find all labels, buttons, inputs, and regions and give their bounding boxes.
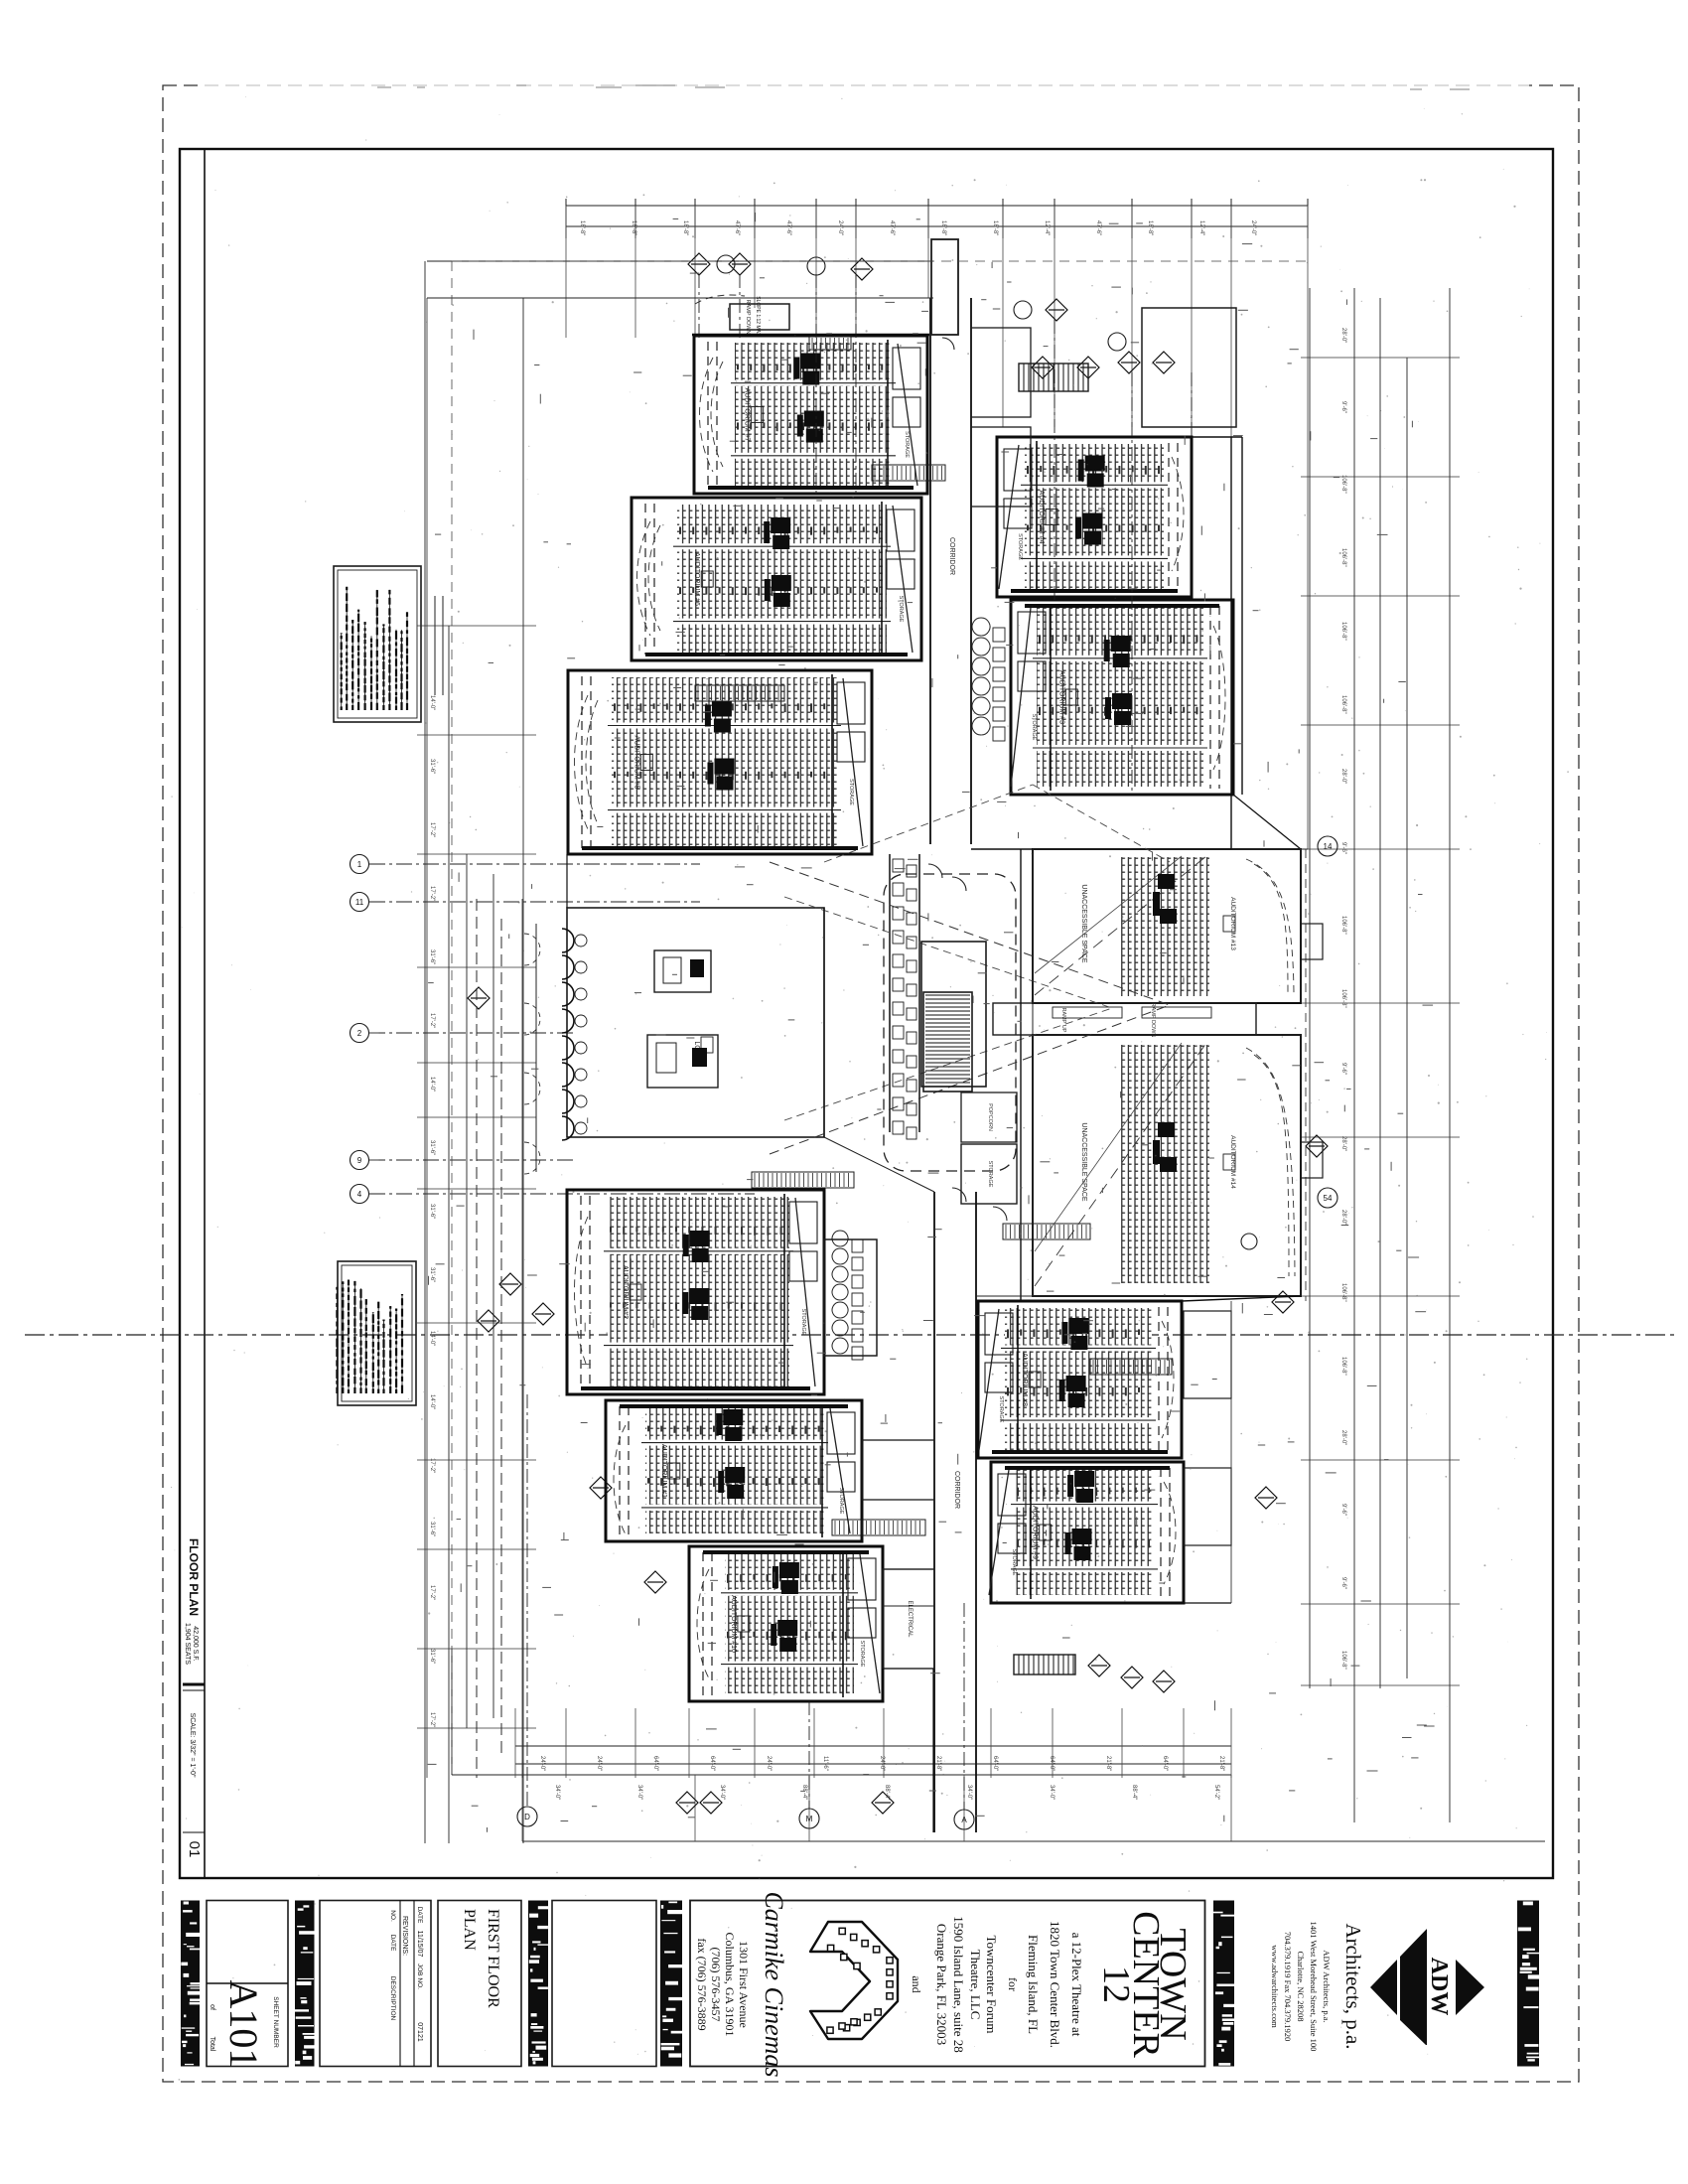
title block texture strip 6 bbox=[1517, 1901, 1539, 2067]
svg-text:ADW Architects, p.a.: ADW Architects, p.a. bbox=[1322, 1950, 1332, 2022]
svg-text:STORAGE: STORAGE bbox=[898, 596, 904, 623]
auditorium 4 upper right bbox=[997, 437, 1192, 597]
svg-text:106'-8": 106'-8" bbox=[1340, 1651, 1346, 1670]
svg-text:17'-2": 17'-2" bbox=[429, 822, 435, 837]
svg-text:9: 9 bbox=[357, 1156, 362, 1165]
svg-text:Total: Total bbox=[209, 2037, 215, 2052]
svg-text:A: A bbox=[961, 1816, 967, 1824]
svg-text:Fleming Island, FL: Fleming Island, FL bbox=[1026, 1935, 1041, 2034]
svg-text:REVISIONS:: REVISIONS: bbox=[401, 1916, 408, 1956]
storage room center bbox=[961, 1144, 1017, 1204]
revisions box bbox=[320, 1901, 431, 2067]
central stair dense treads bbox=[923, 992, 972, 1092]
svg-text:106'-8": 106'-8" bbox=[1340, 1283, 1346, 1302]
screen curve dashed arcs right clusters bbox=[1172, 457, 1184, 571]
svg-text:FLOOR PLAN: FLOOR PLAN bbox=[187, 1538, 201, 1616]
svg-text:STORAGE: STORAGE bbox=[838, 1488, 844, 1515]
svg-text:42,000 S.F.: 42,000 S.F. bbox=[192, 1626, 199, 1661]
svg-text:STORAGE: STORAGE bbox=[904, 431, 910, 458]
svg-text:Theatre, LLC: Theatre, LLC bbox=[968, 1950, 983, 2020]
lower right stair bbox=[1013, 1655, 1015, 1674]
canopy dashed diamond bbox=[770, 862, 1170, 1005]
svg-text:RAMP UP: RAMP UP bbox=[1060, 1008, 1066, 1033]
svg-text:24'-0": 24'-0" bbox=[879, 1756, 885, 1771]
top border fade overlay bbox=[199, 77, 1529, 93]
svg-text:24'-0": 24'-0" bbox=[766, 1756, 772, 1771]
svg-text:17'-2": 17'-2" bbox=[429, 1458, 435, 1473]
svg-text:64'-0": 64'-0" bbox=[1049, 1756, 1055, 1771]
bottom extension verticals bbox=[514, 1708, 516, 1778]
svg-text:DATE: DATE bbox=[389, 1935, 396, 1953]
svg-text:106'-8": 106'-8" bbox=[1340, 1357, 1346, 1376]
svg-text:21'-8": 21'-8" bbox=[1105, 1756, 1111, 1771]
extra interior partition long lines bbox=[427, 297, 933, 299]
svg-text:9'-6": 9'-6" bbox=[1340, 1504, 1346, 1516]
svg-text:704.379.1919 Fax 704.379.1920: 704.379.1919 Fax 704.379.1920 bbox=[1283, 1932, 1293, 2042]
svg-text:AUDITORIUM #8: AUDITORIUM #8 bbox=[1021, 1353, 1028, 1406]
svg-text:24'-0": 24'-0" bbox=[1250, 220, 1256, 235]
svg-text:1: 1 bbox=[357, 860, 362, 869]
title block texture strip 4 bbox=[660, 1901, 682, 2067]
popcorn room bbox=[961, 1092, 1017, 1142]
bottom bubble drops vertical bbox=[526, 1394, 528, 1807]
auditorium 10 lower left third bbox=[689, 1546, 883, 1701]
small rooms right of lower-right cluster bbox=[1184, 1311, 1231, 1398]
svg-text:31'-6": 31'-6" bbox=[429, 949, 435, 964]
svg-text:21'-8": 21'-8" bbox=[1218, 1756, 1224, 1771]
right dimension verticals bbox=[1309, 288, 1311, 1688]
unaccessible space dashed curves right 1 bbox=[1246, 859, 1294, 993]
upper right stair bbox=[1018, 364, 1020, 391]
svg-text:47'-6": 47'-6" bbox=[734, 220, 740, 235]
svg-text:CORRIDOR: CORRIDOR bbox=[953, 1471, 960, 1509]
svg-text:28'-0": 28'-0" bbox=[1340, 769, 1346, 784]
svg-text:www.adwarchitects.com: www.adwarchitects.com bbox=[1270, 1945, 1280, 2028]
svg-text:UNACCESSIBLE SPACE: UNACCESSIBLE SPACE bbox=[1080, 884, 1087, 963]
svg-text:STORAGE: STORAGE bbox=[1011, 1549, 1017, 1576]
svg-text:Charlotte, NC 28208: Charlotte, NC 28208 bbox=[1296, 1951, 1306, 2021]
entry walk dashed lines lower left bbox=[451, 1649, 453, 1775]
svg-text:CORRIDOR: CORRIDOR bbox=[948, 537, 955, 575]
svg-text:NO.: NO. bbox=[389, 1910, 396, 1922]
ramp down label box top bbox=[730, 304, 789, 330]
svg-text:12'-4": 12'-4" bbox=[1198, 220, 1204, 235]
svg-text:31'-6": 31'-6" bbox=[429, 1140, 435, 1155]
svg-text:47'-6": 47'-6" bbox=[889, 220, 895, 235]
svg-text:47'-6": 47'-6" bbox=[785, 220, 791, 235]
left strip divider thick bbox=[183, 1683, 205, 1686]
svg-text:31'-6": 31'-6" bbox=[429, 1522, 435, 1536]
svg-text:A101: A101 bbox=[221, 1980, 266, 2069]
outer dashed sheet border bbox=[163, 85, 1579, 2082]
svg-text:AUDITORIUM #10: AUDITORIUM #10 bbox=[730, 1595, 737, 1653]
svg-text:DATE: DATE bbox=[416, 1907, 423, 1925]
svg-text:AUDITORIUM #6: AUDITORIUM #6 bbox=[693, 552, 700, 606]
concession counter outline bbox=[921, 942, 986, 1087]
svg-text:STORAGE: STORAGE bbox=[998, 1396, 1004, 1423]
svg-text:11: 11 bbox=[355, 898, 364, 907]
svg-text:UNACCESSIBLE SPACE: UNACCESSIBLE SPACE bbox=[1080, 1122, 1087, 1202]
svg-text:106'-8": 106'-8" bbox=[1340, 622, 1346, 641]
svg-text:1401 West Morehead Street, Sui: 1401 West Morehead Street, Suite 100 bbox=[1309, 1922, 1319, 2052]
svg-text:17'-2": 17'-2" bbox=[429, 1712, 435, 1727]
svg-text:17'-2": 17'-2" bbox=[429, 886, 435, 901]
svg-text:SLOPE 1:12 MAX.: SLOPE 1:12 MAX. bbox=[755, 296, 761, 337]
svg-text:14'-0": 14'-0" bbox=[429, 695, 435, 710]
svg-text:ADW: ADW bbox=[1426, 1958, 1452, 2016]
service spine center bbox=[889, 854, 891, 1132]
lower corridor bbox=[933, 1192, 935, 1832]
auditorium 8 lower right bbox=[978, 1301, 1182, 1458]
top small circles bbox=[717, 255, 735, 273]
box office block 2 bbox=[647, 1035, 718, 1088]
misc partition lines lower right bbox=[1182, 1296, 1301, 1301]
svg-text:1820 Town Center Blvd.: 1820 Town Center Blvd. bbox=[1048, 1921, 1062, 2048]
svg-text:AUDITORIUM #3: AUDITORIUM #3 bbox=[1057, 670, 1064, 724]
svg-text:4: 4 bbox=[357, 1190, 362, 1199]
mall lease line dashed rectangle around plan bbox=[451, 261, 453, 1775]
svg-text:RAMP DOWN: RAMP DOWN bbox=[1150, 1003, 1156, 1038]
ramp corridor between right rooms bbox=[993, 1003, 1256, 1035]
svg-text:18'-8": 18'-8" bbox=[631, 220, 636, 235]
svg-text:of: of bbox=[209, 2004, 215, 2010]
page margin speckle noise bbox=[171, 1487, 172, 1488]
upper corridor bbox=[929, 298, 931, 844]
bottom dimension lines bbox=[515, 1745, 1231, 1747]
svg-text:106'-8": 106'-8" bbox=[1340, 989, 1346, 1008]
svg-text:RAMP DOWN: RAMP DOWN bbox=[745, 300, 751, 335]
svg-text:64'-0": 64'-0" bbox=[709, 1756, 715, 1771]
svg-text:1301 First Avenue: 1301 First Avenue bbox=[737, 1941, 751, 2028]
canopy dashed diamond upper wing bbox=[824, 785, 1033, 862]
svg-text:07121: 07121 bbox=[416, 2022, 423, 2042]
carmike film strip logo bbox=[810, 1922, 898, 2039]
main drawing frame bbox=[180, 149, 1553, 1878]
upper corridor top vestibule bbox=[931, 239, 958, 335]
svg-text:11'-6": 11'-6" bbox=[822, 1756, 828, 1771]
svg-text:54'-2": 54'-2" bbox=[1213, 1785, 1219, 1800]
svg-text:SHEET NUMBER: SHEET NUMBER bbox=[272, 1996, 279, 2048]
ramp hatch bands bbox=[809, 337, 851, 350]
svg-text:JOB NO.: JOB NO. bbox=[416, 1964, 423, 1989]
client project box bbox=[690, 1901, 1205, 2067]
svg-text:12'-4": 12'-4" bbox=[1044, 220, 1050, 235]
svg-text:AUDITORIUM #9: AUDITORIUM #9 bbox=[1032, 1506, 1039, 1559]
svg-text:PLAN: PLAN bbox=[461, 1909, 478, 1951]
svg-text:34'-0": 34'-0" bbox=[719, 1785, 725, 1800]
svg-text:18'-8": 18'-8" bbox=[940, 220, 946, 235]
svg-text:AUDITORIUM #1: AUDITORIUM #1 bbox=[660, 1444, 667, 1498]
concession queue dashed rounded rect bbox=[884, 874, 1016, 1171]
svg-text:21'-8": 21'-8" bbox=[935, 1756, 941, 1771]
svg-text:DESCRIPTION: DESCRIPTION bbox=[389, 1976, 396, 2021]
title block texture strip 2 bbox=[295, 1901, 315, 2067]
ADW logo left triangle bbox=[1370, 1960, 1397, 2015]
svg-text:34'-0": 34'-0" bbox=[554, 1785, 560, 1800]
svg-text:AUDITORIUM #7: AUDITORIUM #7 bbox=[744, 388, 751, 442]
exit vestibule right middle bbox=[1301, 924, 1323, 959]
svg-text:11/15/07: 11/15/07 bbox=[416, 1931, 423, 1958]
svg-text:106'-8": 106'-8" bbox=[1340, 548, 1346, 567]
svg-text:for: for bbox=[1006, 1977, 1020, 1991]
svg-text:Orange Park, FL 32003: Orange Park, FL 32003 bbox=[934, 1924, 949, 2045]
screen curve dashed arcs lower cluster bbox=[575, 1217, 589, 1369]
scattered tiny dimension text marks bbox=[1098, 508, 1104, 510]
svg-text:47'-6": 47'-6" bbox=[1095, 220, 1101, 235]
svg-text:88'-4": 88'-4" bbox=[1131, 1785, 1137, 1800]
top extension verticals bbox=[565, 206, 567, 338]
registration marks top bbox=[377, 86, 391, 88]
svg-text:9'-6": 9'-6" bbox=[1340, 401, 1346, 413]
svg-text:54: 54 bbox=[1324, 1194, 1333, 1203]
storage rooms right of corridor bbox=[971, 328, 1031, 417]
drawing title box bbox=[438, 1901, 521, 2067]
svg-text:STORAGE: STORAGE bbox=[848, 779, 854, 805]
auditorium 3 upper right lower bbox=[1011, 600, 1233, 795]
svg-text:Architects, p.a.: Architects, p.a. bbox=[1341, 1923, 1365, 2049]
scan speckle noise bbox=[556, 1682, 557, 1683]
svg-text:(706) 576-3457: (706) 576-3457 bbox=[709, 1948, 723, 2022]
svg-text:31'-6": 31'-6" bbox=[429, 1649, 435, 1664]
fire extinguisher note box bbox=[334, 566, 421, 722]
svg-text:24'-0": 24'-0" bbox=[837, 220, 843, 235]
auditorium 6 upper left middle bbox=[632, 498, 921, 660]
svg-text:28'-0": 28'-0" bbox=[1340, 328, 1346, 343]
svg-text:a 12-Plex Theatre at: a 12-Plex Theatre at bbox=[1069, 1933, 1084, 2037]
large auditorium 14 right middle lower bbox=[1033, 1035, 1301, 1296]
door arcs center bbox=[952, 877, 966, 891]
svg-text:STORAGE: STORAGE bbox=[987, 1161, 993, 1188]
svg-text:24'-0": 24'-0" bbox=[596, 1756, 602, 1771]
title block texture strip 3 bbox=[528, 1901, 548, 2067]
svg-text:9'-6": 9'-6" bbox=[1340, 1577, 1346, 1589]
svg-text:31'-6": 31'-6" bbox=[429, 759, 435, 774]
svg-text:14'-0": 14'-0" bbox=[429, 1077, 435, 1092]
center right corridor walls bbox=[1020, 849, 1022, 1301]
auditorium 1 lower left second bbox=[606, 1400, 862, 1541]
svg-text:2: 2 bbox=[357, 1029, 362, 1038]
grid bubbles left bbox=[351, 855, 369, 874]
svg-text:106'-8": 106'-8" bbox=[1340, 695, 1346, 714]
storage small mid bbox=[862, 1440, 934, 1500]
svg-text:D: D bbox=[524, 1813, 530, 1821]
svg-text:18'-8": 18'-8" bbox=[1147, 220, 1153, 235]
svg-text:28'-0": 28'-0" bbox=[1340, 1136, 1346, 1151]
svg-text:34'-0": 34'-0" bbox=[1049, 1785, 1055, 1800]
svg-text:28'-0": 28'-0" bbox=[1340, 1210, 1346, 1225]
svg-text:Towncenter Forum: Towncenter Forum bbox=[984, 1935, 999, 2033]
right dimension ticks bbox=[1301, 357, 1460, 359]
svg-text:AUDITORIUM #2: AUDITORIUM #2 bbox=[622, 1265, 629, 1319]
unaccessible space diagonals 2 bbox=[1035, 1043, 1206, 1286]
box office block 1 bbox=[654, 950, 711, 992]
svg-text:64'-0": 64'-0" bbox=[1162, 1756, 1168, 1771]
left title strip divider bbox=[204, 149, 206, 1878]
svg-text:64'-0": 64'-0" bbox=[652, 1756, 658, 1771]
svg-text:STORAGE: STORAGE bbox=[859, 1641, 865, 1668]
restroom fixtures lower men bbox=[832, 1231, 848, 1246]
entry arcs bbox=[524, 934, 540, 965]
svg-text:STORAGE: STORAGE bbox=[1031, 714, 1037, 741]
svg-text:31'-6": 31'-6" bbox=[429, 1267, 435, 1282]
svg-text:18'-8": 18'-8" bbox=[682, 220, 688, 235]
empty box bbox=[552, 1901, 656, 2067]
unaccessible space dashed curves right 2 bbox=[1246, 1048, 1295, 1276]
svg-text:17'-2": 17'-2" bbox=[429, 1013, 435, 1028]
left dimension ticks bbox=[417, 625, 536, 627]
unaccessible space diagonals 1 bbox=[1035, 856, 1206, 995]
svg-text:17'-2": 17'-2" bbox=[429, 1585, 435, 1600]
screen curve dashed arcs upper cluster bbox=[700, 358, 714, 472]
electrical room lower bbox=[883, 1569, 934, 1669]
large auditorium 13 right middle bbox=[1033, 849, 1301, 1003]
svg-text:STORAGE: STORAGE bbox=[800, 1309, 806, 1336]
svg-text:M: M bbox=[806, 1815, 813, 1823]
svg-text:SCALE: 3/32" = 1'-0": SCALE: 3/32" = 1'-0" bbox=[189, 1713, 196, 1778]
ADW logo main half diamond bbox=[1400, 1929, 1427, 2045]
grid centerlines horizontal bbox=[369, 863, 700, 865]
svg-text:31'-6": 31'-6" bbox=[429, 1204, 435, 1219]
svg-text:106'-8": 106'-8" bbox=[1340, 916, 1346, 935]
note text beside box bbox=[434, 596, 436, 695]
svg-text:106'-8": 106'-8" bbox=[1340, 475, 1346, 494]
svg-text:9'-6": 9'-6" bbox=[1340, 1063, 1346, 1075]
svg-text:1,904 SEATS: 1,904 SEATS bbox=[184, 1623, 191, 1665]
svg-text:STORAGE: STORAGE bbox=[1017, 533, 1023, 560]
top dimension lines bbox=[566, 205, 1308, 207]
lobby outline bbox=[567, 908, 824, 1137]
left dimension verticals bbox=[424, 261, 426, 1843]
svg-text:1590 Island Lane, suite 28: 1590 Island Lane, suite 28 bbox=[951, 1916, 966, 2053]
svg-text:14'-0": 14'-0" bbox=[429, 1394, 435, 1409]
svg-text:POPCORN: POPCORN bbox=[987, 1103, 993, 1131]
misc partition lines upper right bbox=[1230, 437, 1232, 849]
svg-text:9'-6": 9'-6" bbox=[1340, 842, 1346, 854]
title block texture strip 5 bbox=[1213, 1901, 1234, 2067]
svg-text:88'-4": 88'-4" bbox=[801, 1785, 807, 1800]
ADW logo right triangle bbox=[1456, 1960, 1484, 2015]
sheet number box bbox=[207, 1901, 288, 2067]
auditorium 2 lower left bbox=[567, 1190, 824, 1394]
svg-text:28'-0": 28'-0" bbox=[1340, 1430, 1346, 1445]
svg-text:01: 01 bbox=[186, 1841, 203, 1858]
grid bubble right 14 bbox=[1318, 836, 1337, 856]
svg-text:14: 14 bbox=[1324, 842, 1333, 851]
svg-text:24'-0": 24'-0" bbox=[539, 1756, 545, 1771]
svg-text:34'-0": 34'-0" bbox=[966, 1785, 972, 1800]
masonry dimension note box bbox=[338, 1261, 416, 1405]
horizontal match dash-dot line bbox=[25, 1334, 1678, 1336]
grid centerline drops vertical bbox=[815, 274, 817, 497]
svg-text:and: and bbox=[910, 1975, 923, 1992]
svg-text:18'-8": 18'-8" bbox=[992, 220, 998, 235]
auditorium 7 upper left top bbox=[694, 336, 927, 494]
svg-text:Carmike Cinemas: Carmike Cinemas bbox=[760, 1891, 788, 2077]
auditorium 5 upper left bottom bbox=[568, 670, 872, 854]
svg-text:AUDITORIUM #5: AUDITORIUM #5 bbox=[633, 736, 639, 790]
svg-text:18'-8": 18'-8" bbox=[579, 220, 585, 235]
svg-text:14'-0": 14'-0" bbox=[429, 1331, 435, 1346]
svg-text:88'-4": 88'-4" bbox=[884, 1785, 890, 1800]
grid bubbles bottom bbox=[526, 0, 528, 1]
keynote diamonds bbox=[688, 253, 710, 275]
svg-text:fax (706) 576-3889: fax (706) 576-3889 bbox=[695, 1938, 709, 2030]
auditorium 9 lower right second bbox=[991, 1462, 1184, 1603]
svg-text:12: 12 bbox=[1095, 1966, 1137, 2003]
lobby colonnade arches bbox=[562, 929, 574, 952]
svg-text:AUDITORIUM #4: AUDITORIUM #4 bbox=[1038, 491, 1045, 544]
svg-text:FIRST FLOOR: FIRST FLOOR bbox=[485, 1909, 501, 2008]
title block texture strip 1 bbox=[181, 1901, 200, 2067]
restroom fixtures upper bbox=[972, 618, 990, 636]
building bottom steps bbox=[689, 1700, 883, 1702]
svg-text:64'-0": 64'-0" bbox=[992, 1756, 998, 1771]
svg-text:Columbus, GA 31901: Columbus, GA 31901 bbox=[723, 1932, 737, 2036]
svg-text:34'-0": 34'-0" bbox=[636, 1785, 642, 1800]
